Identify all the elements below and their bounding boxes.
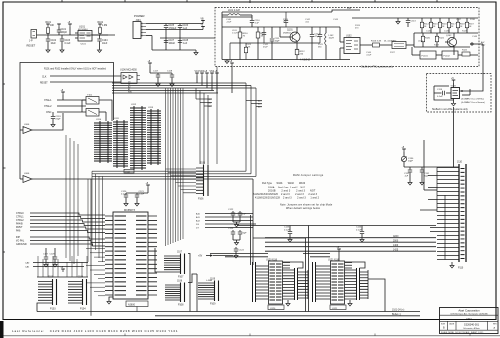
svg-text:C146: C146 (444, 31, 450, 33)
connector W103 pins (298, 272, 308, 298)
IC U112 ROM pins (133, 106, 135, 170)
svg-text:R128: R128 (462, 31, 468, 33)
wire cart left box (423, 140, 425, 190)
capacitor C108 .1uF (178, 40, 182, 42)
wire RAM1 top feeds (210, 253, 268, 255)
ground (170, 84, 174, 87)
IC U115 pin stubs right (148, 216, 157, 295)
connector W102 pins (283, 270, 295, 299)
wire bottom right rail (414, 46, 470, 48)
wire RAM2 top feeds (303, 253, 330, 255)
svg-text:0.1uF: 0.1uF (121, 194, 127, 196)
filter FL102 can (442, 51, 458, 59)
svg-text:U121: U121 (332, 308, 338, 310)
svg-text:OE2: OE2 (208, 106, 212, 108)
svg-text:Part Type W101 W1: Part Type W101 W102 W103 (262, 182, 306, 185)
wire conn box (155, 248, 164, 272)
svg-text:10K: 10K (283, 22, 287, 24)
svg-text:.1uF: .1uF (183, 43, 188, 45)
svg-text:C026340-001: C026340-001 (464, 324, 480, 327)
svg-text:U120: U120 (270, 308, 276, 310)
bus stub wires test points right (246, 100, 262, 102)
wire osc (57, 111, 86, 113)
wire PAL rail y43 (230, 42, 280, 44)
svg-text:1.0uH: 1.0uH (232, 33, 238, 35)
svg-text:C102: C102 (51, 40, 57, 42)
bus wires above CPU (92, 171, 256, 176)
IC U115 body (113, 212, 148, 299)
svg-text:P107: P107 (178, 277, 184, 279)
svg-text:22pF: 22pF (424, 176, 429, 178)
wire ca0 (33, 262, 88, 264)
capacitor C101 100pF (58, 24, 60, 27)
svg-text:J-P: J-P (29, 40, 33, 43)
wire cart pin bus left (436, 168, 438, 213)
title block dividers (440, 314, 499, 316)
svg-text:GTIA: GTIA (466, 318, 472, 321)
svg-text:OE0: OE0 (208, 99, 212, 101)
svg-text:GROUND: GROUND (16, 243, 27, 246)
svg-text:P103: P103 (50, 308, 56, 311)
svg-text:J108: J108 (177, 281, 183, 283)
wire power drop to J106 area (216, 67, 218, 165)
PAL section dashed enclosure (215, 8, 479, 67)
power distribution flags row (196, 73, 198, 76)
wire cart top rail (404, 166, 459, 168)
svg-text:U106: U106 (24, 124, 30, 126)
wire PAL bottom rail (222, 59, 350, 61)
svg-text:J101-24 (+): J101-24 (+) (392, 309, 404, 312)
wire PAL rail y17 (222, 16, 252, 18)
resistor R120 (421, 36, 424, 42)
capacitor C151 (285, 12, 287, 20)
bus mesh verticals left of CPU (92, 171, 103, 262)
svg-text:R/W: R/W (128, 91, 132, 93)
connector W104 strip (312, 262, 314, 302)
svg-text:0.1uF: 0.1uF (284, 229, 290, 231)
wire ground rail (152, 49, 196, 51)
svg-text:Last Reference: C129 D102 J1: Last Reference: C129 D102 J103 L103 C129… (12, 329, 178, 333)
transistor Q102 (447, 37, 456, 46)
IC U121 top pins (345, 263, 352, 269)
power flag CPU (147, 185, 149, 188)
wire video net down (453, 107, 455, 167)
jumper W100 box (124, 169, 134, 173)
svg-text:R130: R130 (470, 19, 476, 21)
ground (234, 256, 238, 259)
svg-text:R121: R121 (439, 38, 445, 40)
capacitor C111 (271, 27, 273, 38)
IC U120 inner pin marks left (270, 264, 276, 300)
ground (44, 265, 48, 268)
power flag VB (202, 21, 204, 24)
wire video out top (332, 10, 360, 12)
svg-text:C123: C123 (228, 228, 234, 230)
svg-text:47pF: 47pF (263, 47, 268, 49)
border tick marks left (3, 84, 6, 252)
svg-text:10uH: 10uH (329, 38, 335, 40)
IC U121 inner pin marks left (332, 264, 338, 300)
svg-text:J106: J106 (200, 163, 206, 165)
connector W106 pins (360, 272, 368, 298)
svg-text:C143: C143 (333, 19, 339, 21)
wire audio left long (37, 311, 420, 313)
connector W101 strip (252, 262, 254, 302)
svg-text:Y101: Y101 (87, 95, 93, 97)
capacitor C131 (409, 167, 411, 170)
svg-text:C128: C128 (50, 254, 56, 256)
resistor R111 (257, 27, 259, 32)
wire from modulator into osc (460, 44, 484, 91)
capacitor C119 (52, 112, 54, 116)
ground stub (397, 18, 399, 21)
resistor R131 (244, 47, 247, 53)
wire to non-PAL section (479, 43, 483, 45)
IC U121 bottom label (330, 305, 346, 310)
wire joystick top rail (37, 276, 88, 278)
resistor R113 (373, 43, 380, 47)
wire long horizontal to cartridge (237, 225, 436, 227)
capacitor C110 (251, 15, 253, 20)
wire crystal to bus (99, 100, 112, 121)
wire +5V rail (146, 23, 203, 25)
power flag RAM2 top (338, 249, 340, 252)
ground RAM2 (349, 300, 351, 303)
svg-text:Schematic, A Main: Schematic, A Main (463, 327, 479, 330)
svg-text:OE1: OE1 (208, 102, 212, 104)
svg-text:C107: C107 (169, 40, 175, 42)
ground (156, 84, 160, 87)
bus verticals xtal to ports (66, 135, 78, 264)
IC U110 RAM pins (99, 121, 101, 163)
svg-text:R101: R101 (46, 22, 52, 24)
svg-text:.1uF: .1uF (183, 28, 188, 30)
crystal load network (86, 109, 99, 117)
svg-text:3.9K: 3.9K (246, 47, 251, 49)
svg-text:VB: VB (201, 18, 205, 20)
svg-text:A2600: A2600 (128, 303, 136, 306)
svg-text:R129: R129 (434, 45, 440, 47)
IC U120 top pins (283, 263, 290, 269)
wire reset net (37, 34, 116, 36)
svg-text:U110: U110 (96, 119, 102, 121)
svg-text:4118/8128/2016/5128 2 and 3: 4118/8128/2016/5128 2 and 3 2 and 3 1 an… (255, 197, 320, 200)
ground RAM1 (287, 300, 289, 303)
svg-text:VID: VID (347, 7, 351, 10)
svg-text:C101: C101 (61, 29, 67, 31)
svg-text:2N3904: 2N3904 (283, 33, 291, 35)
svg-text:C115: C115 (437, 89, 443, 91)
bus wires vertical data/address (166, 88, 184, 246)
ground cart bottom (451, 262, 453, 265)
svg-text:U106 MC14050: U106 MC14050 (120, 69, 137, 72)
transistor Q101 (290, 32, 300, 42)
svg-text:C117: C117 (153, 71, 159, 73)
svg-text:R102: R102 (98, 22, 104, 24)
ground PAL left (226, 60, 228, 61)
wire PAL VCC rail (222, 11, 332, 13)
wire rail 3 to PAL box (146, 35, 152, 37)
bus drops long to CPU rows (245, 83, 247, 171)
IC U121 inner pin marks right (338, 264, 344, 300)
svg-text:2016A Don't Care 1 and: 2016A Don't Care 1 and 2 NOT (268, 186, 306, 189)
capacitor C150 (263, 27, 265, 32)
ground (195, 50, 197, 52)
resistor R102 1.0M (99, 24, 101, 27)
capacitor C107 100uF (164, 40, 168, 42)
svg-text:0.1uF: 0.1uF (356, 229, 362, 231)
svg-text:Y103: Y103 (451, 86, 457, 88)
connector J110 body (458, 164, 460, 262)
svg-text:C118: C118 (167, 71, 173, 73)
oscillator Y103 (453, 83, 455, 88)
svg-text:When default settings below: When default settings below (286, 207, 320, 210)
wire cart pin bus left lower (444, 195, 446, 260)
svg-text:R113 3.3K: R113 3.3K (371, 41, 382, 43)
IC U115 inner pin names right (136, 216, 147, 295)
wire RAM2 right link (345, 262, 365, 268)
svg-text:Q102: Q102 (446, 35, 452, 37)
svg-text:C122: C122 (228, 209, 234, 211)
non-PAL dashed enclosure (427, 74, 492, 113)
svg-text:L-36A: L-36A (206, 279, 212, 282)
capacitor C121 (136, 193, 138, 195)
ground (53, 265, 57, 268)
title block frame (440, 308, 499, 334)
wire gate1 out (32, 113, 63, 130)
wire PAL mid rail (222, 26, 340, 28)
capacitor C103 0.1uF to ground (61, 35, 63, 39)
IC U120 inner pin marks right (276, 264, 282, 300)
wire CPU label to rail (136, 307, 138, 312)
svg-text:22pF: 22pF (56, 119, 62, 121)
power flag +5 (202, 27, 204, 30)
capacitor C122 pair (232, 211, 234, 213)
svg-text:22pF: 22pF (242, 233, 248, 235)
filter FL101 4.43MHz can (420, 51, 436, 59)
capacitor C152 (319, 27, 321, 34)
svg-text:U112: U112 (131, 104, 137, 106)
svg-text:Q101: Q101 (287, 30, 293, 32)
bus wires to connector J106 (166, 169, 197, 193)
svg-text:R127: R127 (390, 52, 396, 54)
svg-text:P106: P106 (198, 199, 204, 201)
buffer gate U106b (23, 176, 32, 183)
svg-text:J110: J110 (457, 161, 463, 164)
svg-text:Atari Corporation: Atari Corporation (458, 308, 480, 312)
wire ca1 (33, 266, 84, 268)
power flag right (231, 63, 233, 66)
svg-text:C106: C106 (183, 25, 189, 27)
capacitor C112 (311, 27, 313, 34)
svg-text:A13: A13 (258, 99, 261, 102)
svg-text:1196 Borregas Ave. Sunnyvale,: 1196 Borregas Ave. Sunnyvale, CA 94086 (450, 313, 488, 316)
svg-text:R101 and R102 Installed ONLY w: R101 and R102 Installed ONLY when U101 i… (44, 68, 107, 71)
wire vertical left 2 (87, 179, 89, 262)
svg-text:Stuffed in non-PAL systems onl: Stuffed in non-PAL systems only (432, 108, 469, 111)
svg-text:0.1uF: 0.1uF (437, 96, 443, 98)
ground (234, 243, 238, 246)
svg-text:CAGE: CAGE (449, 322, 455, 325)
svg-text:C145: C145 (426, 31, 432, 33)
wire RAM1 right link (283, 262, 303, 268)
connector J110 pin numbers (461, 169, 465, 259)
svg-text:U106: U106 (24, 173, 30, 175)
ground (234, 225, 238, 228)
svg-text:P109: P109 (210, 304, 216, 306)
svg-text:4700uF: 4700uF (169, 28, 177, 30)
svg-text:C125: C125 (284, 227, 290, 229)
svg-text:RAM Jumper settings: RAM Jumper settings (293, 173, 324, 177)
ground (360, 240, 364, 243)
trimmer C130 (401, 156, 406, 161)
IC U106 body (121, 73, 137, 84)
capacitor C105 4700uF (165, 24, 167, 26)
ground (408, 183, 412, 186)
wire joystick ground run (37, 303, 38, 312)
wire stair from labels (253, 223, 256, 225)
svg-text:FL101: FL101 (422, 56, 429, 58)
ground (420, 183, 424, 186)
svg-text:OSC: OSC (46, 111, 52, 114)
IC U115 bottom label (126, 301, 148, 307)
bus stair drops to J106 (199, 91, 201, 165)
capacitor C115 (446, 92, 451, 94)
IC U121 body (331, 261, 345, 304)
border tick marks top (62, 0, 437, 3)
connector J110 pins (437, 168, 459, 260)
capacitor C128 (54, 248, 56, 257)
capacitor C124 (235, 247, 237, 249)
wire A-bus down left (252, 179, 254, 265)
IC U120 bottom label (268, 305, 284, 310)
ground (51, 125, 55, 128)
svg-text:J104: J104 (78, 277, 84, 279)
power flag XTAL (62, 92, 64, 95)
svg-text:CLK: CLK (42, 77, 47, 79)
svg-text:C104: C104 (102, 40, 108, 42)
wire xtal1 (57, 99, 86, 101)
svg-text:C105: C105 (169, 25, 175, 27)
crystal Y101 (86, 97, 99, 105)
buffer gate U106a (23, 127, 32, 134)
ground CPU (109, 297, 113, 301)
svg-text:XTAL1: XTAL1 (44, 99, 52, 102)
svg-text:PA6: PA6 (16, 230, 21, 233)
power flag joystick (62, 269, 64, 272)
IC U113 ROM pins (150, 109, 152, 165)
connector W105 pins (345, 270, 357, 299)
wire joystick feed drops (38, 256, 87, 277)
IC U111 RAM pins (116, 120, 118, 168)
ground (46, 50, 50, 53)
svg-text:P104: P104 (80, 308, 86, 311)
svg-text:FL102: FL102 (444, 56, 451, 58)
power flag U106 (149, 63, 151, 66)
svg-text:U113: U113 (148, 107, 154, 109)
ground oscillator (451, 103, 455, 106)
svg-text:Stuffed in PAL systems only: Stuffed in PAL systems only (361, 64, 394, 68)
svg-text:4.43MHZ: 4.43MHZ (300, 59, 310, 62)
svg-text:100uF: 100uF (169, 43, 176, 45)
power flag +5 cart (403, 149, 405, 152)
bus wires top of RAM block (112, 82, 246, 84)
svg-text:1.0M: 1.0M (102, 25, 107, 27)
svg-text:.1uF: .1uF (404, 176, 409, 178)
svg-text:(4.43MHZ Osc = Secam): (4.43MHZ Osc = Secam) (461, 102, 485, 104)
wire connector links (188, 254, 190, 312)
svg-text:P110: P110 (458, 268, 464, 270)
svg-text:U101: U101 (80, 44, 87, 46)
IC U115 inner pin names left (115, 216, 127, 295)
resistor R110 (239, 27, 241, 32)
svg-text:.1uF: .1uF (255, 23, 260, 25)
svg-text:C108: C108 (183, 40, 189, 42)
wire gate2 out long (32, 178, 253, 180)
wire PAL right rail top (352, 17, 478, 19)
svg-text:10pF: 10pF (408, 161, 414, 163)
svg-text:10uF: 10uF (51, 43, 57, 45)
wire reset to logic net (20, 63, 114, 131)
wire osc loop (434, 86, 454, 100)
svg-text:+5V: +5V (198, 256, 203, 258)
svg-text:C124: C124 (239, 250, 245, 252)
resistor R112 emitter (295, 49, 299, 55)
capacitor C123 pair (232, 230, 234, 232)
svg-text:0.1uF: 0.1uF (65, 43, 71, 45)
wire horizontal y238 (253, 237, 306, 239)
connector J110 long pins (428, 176, 437, 232)
svg-text:(3.58MHZ Osc = NTSC): (3.58MHZ Osc = NTSC) (461, 99, 484, 101)
wire long vertical left (90, 179, 92, 316)
connector W104 pins (316, 266, 331, 299)
svg-text:C147: C147 (456, 19, 462, 21)
wire xtal2 (57, 105, 86, 107)
wire osc out (360, 44, 372, 46)
wire audio right long (155, 315, 420, 317)
svg-text:10pF: 10pF (275, 41, 281, 43)
ground (97, 50, 101, 53)
connector J102 RESET switch (31, 30, 37, 39)
svg-text:C126: C126 (356, 227, 362, 229)
capacitor C117 .1uF (157, 73, 159, 75)
scan edge bar bottom-left (0, 321, 4, 338)
svg-text:10uF: 10uF (102, 43, 108, 45)
wire rail 2 (146, 29, 203, 31)
svg-text:POWER: POWER (134, 14, 145, 18)
inductor L102 (325, 27, 327, 33)
wire L-net right (368, 279, 385, 312)
bottom outer margin line (0, 335, 500, 337)
connector W101 pins (256, 266, 269, 299)
capacitor C118 .1uF (171, 73, 173, 75)
ground (135, 204, 139, 207)
svg-text:C148: C148 (472, 36, 478, 38)
svg-text:0.1uF: 0.1uF (139, 194, 145, 196)
svg-text:J107: J107 (177, 252, 183, 254)
svg-text:J103: J103 (48, 277, 54, 279)
svg-text:100pF: 100pF (61, 32, 68, 34)
resistor R121 (435, 36, 438, 42)
capacitor C102 10uF to ground (47, 35, 49, 39)
RF output wire (470, 43, 479, 45)
ground (60, 50, 64, 53)
wire mesh rows into CPU pins (86, 249, 105, 296)
wire cart feed from bus (424, 189, 437, 191)
wire right mid rail (414, 32, 478, 34)
svg-text:R122: R122 (462, 50, 468, 52)
wire vertical mid (305, 238, 307, 312)
